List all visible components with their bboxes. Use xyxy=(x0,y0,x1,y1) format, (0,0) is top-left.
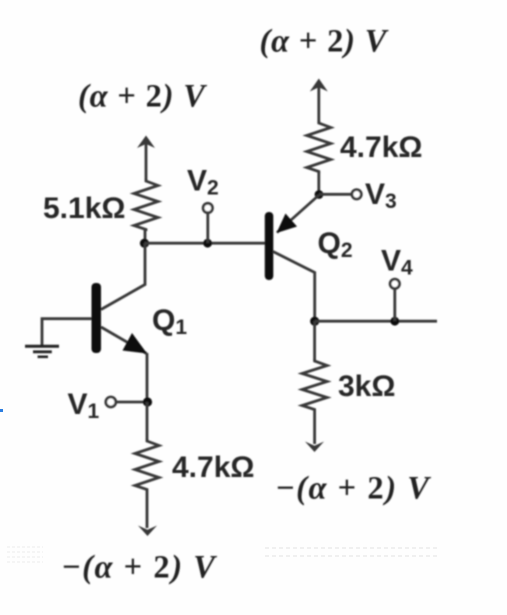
ground xyxy=(25,346,59,357)
wire Q2 collector to node B xyxy=(273,252,315,322)
wire node A to Q2 base xyxy=(145,242,266,245)
transistor Q2 emitter with arrow xyxy=(277,195,320,233)
wire V3 terminal stub xyxy=(319,193,352,196)
resistor R2 4.7kΩ xyxy=(135,439,159,493)
wire node B to resistor R4 xyxy=(313,321,316,360)
resistor R1 5.1kΩ xyxy=(134,179,158,231)
stray blue mark left edge xyxy=(0,409,3,412)
svg-text:4.7kΩ: 4.7kΩ xyxy=(340,131,422,164)
negative supply arrow down (left) xyxy=(138,493,157,536)
wire Q1 emitter to node V1 xyxy=(146,353,149,402)
svg-text:4.7kΩ: 4.7kΩ xyxy=(172,451,254,484)
svg-text:(α + 2) V: (α + 2) V xyxy=(260,24,389,60)
wire V4 terminal stub xyxy=(393,289,396,322)
svg-text:(α + 2) V: (α + 2) V xyxy=(78,79,207,115)
node V4 junction dot xyxy=(390,317,399,326)
node V1 junction dot xyxy=(143,397,152,406)
svg-text:V3: V3 xyxy=(365,178,397,213)
supply arrow up (right branch) xyxy=(310,79,328,123)
wire node A to Q1 collector xyxy=(101,243,145,310)
svg-text:V1: V1 xyxy=(68,388,100,423)
wire node B to right end xyxy=(315,320,437,323)
transistor Q2 base bar xyxy=(265,212,274,280)
resistor R4 3kΩ xyxy=(302,359,327,413)
wire node V1 to resistor R2 xyxy=(146,402,149,440)
wire V1 terminal to node xyxy=(116,401,148,404)
wire resistor R1 to node A xyxy=(144,230,147,243)
svg-text:−(α + 2) V: −(α + 2) V xyxy=(276,471,431,507)
supply arrow up (left branch) xyxy=(137,136,155,181)
terminal V1 circle xyxy=(106,397,116,407)
transistor Q1 emitter with arrow xyxy=(101,327,147,354)
svg-text:3kΩ: 3kΩ xyxy=(338,370,395,403)
faint watermark left xyxy=(7,546,43,566)
svg-text:V4: V4 xyxy=(381,245,413,280)
wire resistor R3 to node V3 xyxy=(317,172,320,195)
faint watermark right xyxy=(265,547,440,562)
terminal V4 circle xyxy=(390,279,399,288)
terminal V2 circle xyxy=(203,203,212,212)
resistor R3 4.7kΩ xyxy=(307,121,331,173)
negative supply arrow down (right) xyxy=(305,413,324,452)
svg-text:V2: V2 xyxy=(187,165,219,200)
transistor Q1 base bar xyxy=(92,283,102,353)
wire V2 terminal stub xyxy=(206,213,209,244)
svg-text:5.1kΩ: 5.1kΩ xyxy=(43,192,125,225)
terminal V3 circle xyxy=(352,190,361,199)
wire Q1 base to ground xyxy=(42,319,92,346)
svg-text:−(α + 2) V: −(α + 2) V xyxy=(62,550,217,586)
svg-text:Q2: Q2 xyxy=(318,227,353,262)
node V3 junction dot xyxy=(315,190,324,199)
svg-text:Q1: Q1 xyxy=(152,304,187,339)
node A junction dot xyxy=(140,239,149,248)
node V2 junction dot xyxy=(203,239,212,248)
node B junction dot xyxy=(310,317,319,326)
